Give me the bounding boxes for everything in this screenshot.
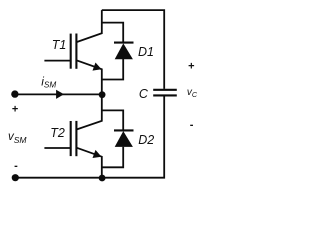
svg-text:D2: D2 (138, 133, 154, 147)
svg-text:T1: T1 (52, 38, 67, 52)
transistor T2 body bar (75, 121, 77, 156)
svg-text:T2: T2 (50, 126, 65, 140)
diode D1 triangle (115, 43, 133, 59)
svg-text:-: - (190, 119, 194, 131)
svg-text:-: - (14, 160, 18, 172)
capacitor C bottom plate (153, 94, 177, 96)
transistor T1 emitter arrowhead (93, 63, 102, 71)
wire top bus (102, 10, 164, 89)
transistor T1 gate bar (70, 34, 72, 69)
wire middle (iSM) (15, 93, 102, 95)
transistor T2 emitter wire (77, 148, 102, 178)
wire bottom bus (15, 96, 164, 177)
node dot left bottom terminal (12, 174, 19, 181)
wire D1 cathode stub (102, 23, 123, 42)
svg-text:D1: D1 (138, 45, 154, 59)
transistor T1 emitter wire (77, 60, 102, 94)
transistor T2 gate lead (44, 147, 70, 149)
node dot left middle terminal (11, 90, 18, 97)
wire D2 anode stub (102, 147, 123, 168)
capacitor C top plate (153, 89, 177, 91)
svg-text:+: + (188, 60, 194, 72)
wire D1 anode stub (102, 59, 123, 80)
transistor T1 collector wire (77, 10, 102, 42)
transistor T2 collector wire (77, 94, 102, 129)
transistor T2 emitter arrowhead (93, 150, 102, 158)
transistor T1 body bar (75, 34, 77, 69)
transistor T1 gate lead (44, 60, 70, 62)
transistor T2 gate bar (70, 121, 72, 156)
diode D2 cathode bar (114, 129, 134, 131)
wire D2 cathode stub (102, 110, 123, 129)
node dot junction T1/T2 midpoint (99, 91, 106, 98)
diode D1 cathode bar (114, 42, 134, 44)
svg-text:C: C (139, 87, 149, 101)
current arrow iSM head (56, 90, 64, 99)
svg-text:+: + (12, 104, 18, 116)
diode D2 triangle (115, 131, 133, 147)
node dot junction bottom bus (99, 175, 106, 182)
